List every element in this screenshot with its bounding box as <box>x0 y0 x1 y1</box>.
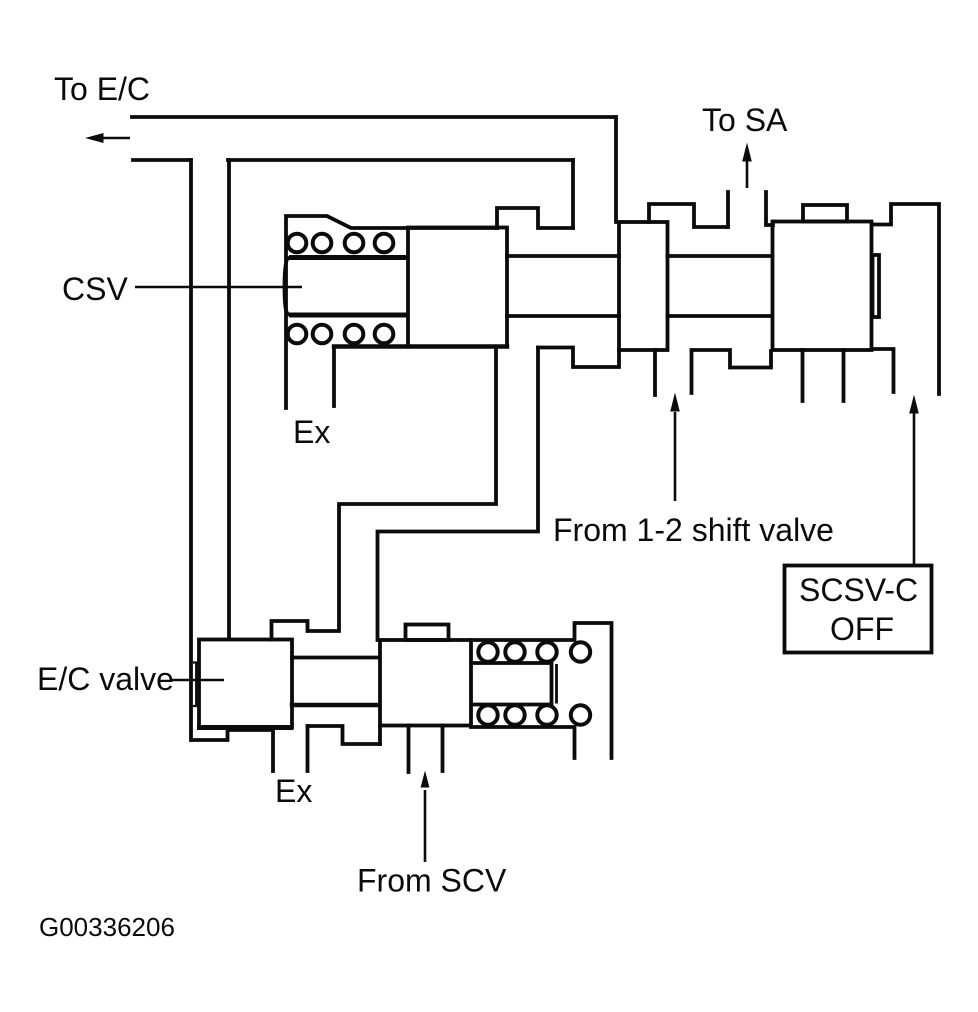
box SCSV-C OFF <box>785 566 932 653</box>
wire to E/C lower left <box>133 158 191 162</box>
arrow From 1-2 shift valve <box>674 412 677 501</box>
arrow SCSV-C <box>913 413 916 566</box>
wall below bore mid-left <box>538 348 619 368</box>
spool E/C stem <box>292 656 379 660</box>
spring E/C bottom coils <box>478 705 497 724</box>
bore top right E/C <box>471 623 612 758</box>
spool land 2 <box>619 222 668 350</box>
wall below bore mid-right <box>692 350 772 393</box>
svg-text:Ex: Ex <box>293 414 330 450</box>
arrow From SCV <box>424 790 427 862</box>
arrow To SA <box>746 158 749 188</box>
wire vertical x191 <box>189 160 193 740</box>
wire vertical x616 <box>614 117 618 222</box>
port stub From 1-2 left <box>653 350 657 395</box>
solenoid SCSV-C cap <box>803 205 847 222</box>
svg-text:OFF: OFF <box>830 611 894 647</box>
svg-text:SCSV-C: SCSV-C <box>799 572 918 608</box>
bore cap ticks E/C <box>193 663 199 707</box>
leader line E/C valve <box>172 679 224 682</box>
wire to E/C lower right <box>228 158 573 162</box>
spool E/C stem end cap <box>555 664 558 704</box>
wall right of solenoid <box>872 204 940 394</box>
channel B down <box>378 348 539 641</box>
spring E/C top coils <box>478 642 497 661</box>
svg-text:From SCV: From SCV <box>357 863 507 899</box>
valve CSV sleeve <box>286 216 497 408</box>
port stub From SCV right <box>441 726 445 772</box>
svg-text:E/C valve: E/C valve <box>37 661 174 697</box>
spool E/C land 2 <box>380 640 471 726</box>
port stub To SA right <box>766 192 773 225</box>
port bump top mid <box>649 204 728 227</box>
port Ex wall CSV <box>332 347 336 407</box>
port stub From SCV left <box>407 726 411 773</box>
port stub Ex left E/C <box>271 728 275 772</box>
cap above E/C land 2 <box>406 625 449 641</box>
port stub below solenoid 2 <box>842 350 846 401</box>
leader line CSV <box>135 286 302 289</box>
wall bump below E/C stem <box>308 726 381 744</box>
wall bottom left E/C <box>192 730 273 740</box>
spool E/C stem inner <box>471 663 552 705</box>
spool stem 2 <box>668 256 773 316</box>
spool CSV stem bottom and seat lower line <box>289 313 408 318</box>
wire vertical x229 <box>227 160 231 639</box>
svg-text:To E/C: To E/C <box>54 71 150 107</box>
svg-text:From 1-2 shift valve: From 1-2 shift valve <box>553 512 834 548</box>
spring CSV top coils <box>288 234 307 253</box>
port bump top CSV <box>497 208 573 228</box>
svg-text:CSV: CSV <box>62 271 128 307</box>
spring CSV bottom coils <box>288 325 307 344</box>
valve CSV sleeve bottom <box>334 344 507 348</box>
wire to E/C upper <box>132 115 616 119</box>
svg-text:Ex: Ex <box>275 773 312 809</box>
port stub To SA left <box>726 192 730 227</box>
spool stem 1 <box>507 256 619 316</box>
wire vertical x573 <box>571 160 575 228</box>
channel A down <box>272 347 497 640</box>
spool CSV stem left cap <box>285 259 289 315</box>
spool E/C land 2 left edge extension <box>378 726 382 745</box>
port stub below solenoid 1 <box>801 350 805 401</box>
wall below solenoid right <box>872 349 894 392</box>
solenoid SCSV-C body <box>773 222 872 351</box>
arrow to E/C <box>101 137 130 140</box>
spool CSV land <box>408 228 507 347</box>
spring CSV seat upper line and spool stem top <box>289 255 408 260</box>
svg-text:G00336206: G00336206 <box>39 912 175 942</box>
svg-text:To SA: To SA <box>702 102 788 138</box>
port stub Ex right E/C <box>306 726 310 771</box>
bore bottom right E/C <box>471 727 575 758</box>
spool E/C land 1 <box>199 640 292 728</box>
solenoid SCSV-C plunger tab <box>873 255 880 317</box>
